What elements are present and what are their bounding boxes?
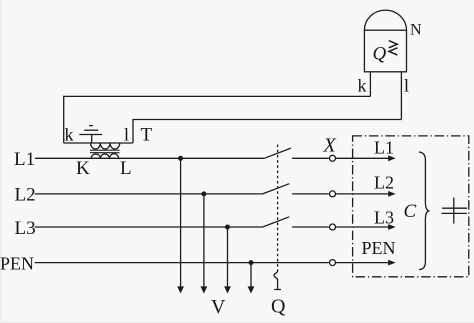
switch Q pole 3 blade: [263, 217, 290, 227]
switch Q linkage (dashed): [277, 145, 279, 272]
svg-text:T: T: [141, 124, 153, 145]
left image edge shading: [0, 0, 2, 323]
svg-text:l: l: [124, 124, 129, 144]
terminal X pole 2: [330, 191, 336, 197]
wire PEN: [35, 262, 329, 264]
svg-text:C: C: [404, 201, 417, 222]
relay Q (dome-topped box): [364, 10, 406, 72]
svg-text:k: k: [358, 76, 367, 96]
arrowhead L2: [388, 191, 396, 197]
svg-text:X: X: [323, 134, 337, 156]
arrowhead L3: [388, 224, 396, 230]
wire L3 right segment: [292, 226, 329, 228]
relay pin l lead: [400, 72, 402, 120]
svg-text:N: N: [410, 22, 422, 39]
wire L3 to voltmeter tap: [227, 227, 229, 287]
svg-text:L1: L1: [374, 137, 394, 157]
junction on PEN: [249, 260, 254, 265]
wire relay-l to transformer-l: [133, 120, 401, 144]
transformer T primary winding: [91, 154, 118, 159]
arrowhead PEN: [388, 260, 396, 266]
svg-text:L: L: [120, 158, 132, 179]
transformer T secondary winding: [91, 143, 120, 149]
cable C boundary (dash-dot box): [353, 136, 469, 277]
wire PEN to voltmeter tap: [250, 263, 252, 287]
svg-text:V: V: [211, 296, 226, 318]
junction on L1: [178, 156, 183, 161]
terminal X pole 1: [330, 155, 336, 161]
svg-text:l: l: [404, 76, 409, 96]
cable conductor L2: [336, 193, 389, 195]
capacitance to earth symbol: [442, 198, 468, 224]
arrow L1 voltmeter tap: [177, 286, 184, 293]
relay pin k lead: [369, 72, 371, 97]
wire L3 left segment: [35, 226, 263, 228]
junction on L2: [201, 191, 206, 196]
svg-text:Q: Q: [373, 44, 387, 65]
svg-text:PEN: PEN: [362, 238, 396, 258]
brace for cable C: [419, 152, 430, 270]
arrowhead L1: [388, 155, 396, 161]
svg-text:L1: L1: [14, 149, 35, 170]
terminal X pole 3: [330, 224, 336, 230]
wire L2 left segment: [35, 193, 263, 195]
switch Q pole 1 blade: [264, 148, 291, 158]
arrow L3 voltmeter tap: [224, 286, 231, 293]
svg-text:K: K: [76, 158, 90, 179]
svg-text:L3: L3: [15, 218, 36, 239]
wire relay-k to transformer-k: [64, 96, 371, 143]
relay label chevrons: [389, 41, 398, 55]
svg-text:L2: L2: [15, 185, 36, 206]
cable conductor L3: [336, 226, 389, 228]
ground (inverted earth on secondary): [79, 126, 102, 143]
relay label Q&gt;&lt;: [373, 44, 387, 65]
wire L2 to voltmeter tap: [203, 194, 205, 287]
svg-text:Q: Q: [271, 296, 286, 318]
arrow L2 voltmeter tap: [201, 286, 208, 293]
bottom image edge shading: [0, 322, 474, 323]
arrow PEN voltmeter tap: [248, 286, 255, 293]
svg-text:PEN: PEN: [0, 253, 34, 273]
svg-text:L3: L3: [374, 207, 394, 227]
junction on L3: [225, 225, 230, 230]
terminal X pole PEN: [330, 260, 336, 266]
switch Q pole 2 blade: [263, 184, 290, 194]
wire L1 left segment: [35, 157, 264, 159]
switch Q handle: [274, 271, 278, 289]
wire L1 right segment: [292, 157, 329, 159]
wire L2 right segment: [292, 193, 329, 195]
cable conductor PEN: [336, 262, 389, 264]
svg-text:L2: L2: [374, 172, 394, 192]
svg-text:k: k: [65, 124, 74, 144]
transformer T secondary wire k-l: [64, 142, 133, 144]
transformer T core: [90, 150, 120, 153]
cable conductor L1: [336, 157, 389, 159]
wire L1 to voltmeter tap: [180, 158, 182, 287]
switch Q handle foot: [274, 289, 281, 291]
